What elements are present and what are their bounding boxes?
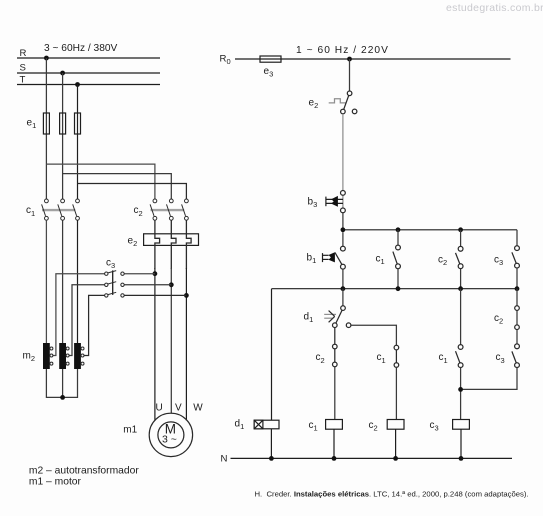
svg-text:c2: c2 (134, 205, 143, 218)
pushbutton b1 actuator (323, 252, 335, 262)
svg-text:c3: c3 (106, 258, 115, 271)
wire d1 to c1-NC branch (351, 325, 397, 345)
m2 winding1 taps (50, 347, 53, 365)
junction N c3 (459, 456, 464, 461)
timer contact d1 (333, 289, 351, 328)
svg-text:b1: b1 (307, 253, 317, 266)
wire R0 to e2 switch (349, 59, 351, 91)
svg-text:b3: b3 (308, 196, 318, 209)
svg-text:m2 – autotransformador: m2 – autotransformador (29, 465, 139, 476)
autotransformer m2 winding 3 (74, 343, 81, 369)
svg-text:V: V (175, 403, 182, 414)
overload relay e2 heater 1 (155, 220, 160, 269)
svg-text:c2: c2 (369, 420, 378, 433)
wire b3 to bus1 (342, 213, 344, 230)
svg-text:c1: c1 (376, 253, 385, 266)
wire m2 tap3 to c3 (84, 295, 105, 355)
control bus 1 (343, 229, 517, 231)
contactor c3 linkage (112, 270, 114, 295)
svg-text:c3: c3 (430, 420, 439, 433)
wire e2 to motor V (170, 268, 172, 414)
overload relay e2 heater 3 (186, 220, 191, 269)
svg-text:N: N (221, 454, 228, 465)
pushbutton b3 actuator (326, 196, 343, 207)
svg-text:c2: c2 (438, 255, 447, 268)
switch e2 open terminal (352, 109, 357, 114)
switch e2 blade (344, 96, 349, 110)
junction c3 out 1 (153, 271, 158, 276)
coil c3 (453, 420, 470, 430)
fuse e3 inner line (260, 58, 281, 60)
wire b1 to bus2 (342, 269, 344, 289)
switch e2 bottom terminal (341, 109, 346, 114)
svg-text:3 ~ 60Hz / 380V: 3 ~ 60Hz / 380V (44, 43, 118, 54)
autotransformer m2 winding 2 (59, 343, 66, 369)
fuse e1 phase S (60, 113, 66, 134)
overload relay e2 heater 2 (171, 220, 176, 269)
junction c3 coil feed (458, 387, 463, 392)
contact c3 seal-in (512, 230, 519, 289)
wire L2 upper (62, 73, 64, 199)
svg-text:e1: e1 (27, 118, 37, 131)
wire c3 coil to N (460, 429, 462, 458)
svg-text:c2: c2 (494, 313, 503, 326)
contactor c3 pole 1 (105, 271, 125, 276)
coil c2 (387, 420, 404, 430)
svg-text:U: U (156, 402, 163, 413)
svg-text:c1: c1 (439, 352, 448, 365)
motor m1 outer (149, 413, 192, 456)
bus S (17, 72, 160, 74)
wire L2 lower to m2 (62, 220, 64, 343)
junction N d1 (269, 456, 274, 461)
timer d1 delay arrow (324, 311, 336, 323)
wire L1 upper (45, 58, 47, 199)
svg-text:S: S (20, 62, 26, 73)
wire d1 coil to N (270, 429, 272, 459)
junction bus1 b1 (341, 227, 346, 232)
svg-text:c1: c1 (377, 352, 386, 365)
wire branch 2 to c2 (63, 174, 172, 200)
svg-text:m1 – motor: m1 – motor (29, 476, 82, 487)
bus R0 (235, 58, 511, 60)
wire e2 to b3 (342, 114, 344, 191)
svg-text:c3: c3 (494, 255, 503, 268)
m2 winding2 taps (66, 347, 69, 365)
junction bus2 main (341, 286, 346, 291)
junction T / L3 (75, 82, 80, 87)
junction m2 star point (60, 395, 65, 400)
wire branch 3 to c2 (78, 184, 187, 200)
control bus 2 (272, 288, 518, 290)
junction bus1 c1 (396, 227, 401, 232)
contactor c1 pole T (73, 199, 80, 220)
contact c1 seal-in (393, 230, 401, 289)
bus N (231, 457, 513, 459)
junction N c2 (393, 456, 398, 461)
contact c1 NC interlock (394, 345, 399, 419)
contactor c2 pole 1 (150, 199, 157, 220)
wire L1 lower to m2 (45, 220, 47, 343)
contactor c1 linkage (42, 209, 75, 211)
contact c2 NC interlock (333, 328, 338, 420)
contact c2 seal-in (456, 230, 464, 289)
contactor c2 pole 2 (167, 199, 174, 220)
contactor c2 linkage (151, 209, 185, 211)
contactor c2 pole 3 (182, 199, 189, 220)
junction c3 out 2 (169, 282, 174, 287)
wire branch 1 to c2 (46, 164, 154, 199)
svg-text:d1: d1 (304, 312, 314, 325)
overload relay e2 box (144, 234, 199, 246)
svg-text:e2: e2 (309, 98, 319, 111)
switch e2 actuator (329, 99, 346, 103)
wire c1 coil to N (333, 429, 335, 458)
pushbutton b1 (335, 232, 345, 269)
contactor c1 pole S (58, 199, 65, 220)
wire e2 to motor W (185, 268, 187, 421)
coil c1 (326, 420, 343, 430)
svg-text:T: T (20, 74, 26, 85)
contactor c3 pole 2 (105, 282, 125, 287)
wire L3 upper (77, 85, 79, 200)
bus R (17, 57, 160, 59)
wire c2 coil to N (395, 429, 397, 458)
fuse e3 (260, 56, 281, 62)
fuse e1 phase T (75, 113, 81, 134)
contactor c1 pole R (42, 199, 49, 220)
junction N c1 (332, 456, 337, 461)
autotransformer m2 winding 1 (43, 343, 50, 369)
junction bus2 c1 (396, 286, 401, 291)
svg-text:e3: e3 (264, 66, 274, 79)
junction bus2 right (515, 286, 520, 291)
junction S / L2 (60, 71, 65, 76)
junction R0 / control column (347, 57, 352, 62)
wire c3 out 1 (124, 273, 155, 275)
pushbutton b3 contact (341, 191, 346, 213)
contact c1 NO for c3 (456, 289, 464, 420)
wire c3 out 2 (124, 284, 171, 286)
junction bus1 c2 (458, 227, 463, 232)
svg-text:m1: m1 (123, 424, 137, 435)
svg-text:3 ~: 3 ~ (162, 433, 177, 445)
wire m2 star (46, 369, 77, 397)
switch e2 top terminal (347, 91, 352, 96)
svg-text:c1: c1 (26, 205, 35, 218)
svg-text:c2: c2 (316, 352, 325, 365)
contact c3 NO right (461, 330, 520, 390)
wire L3 lower to m2 (77, 220, 79, 343)
timer coil d1 (254, 420, 279, 429)
svg-text:R0: R0 (220, 53, 231, 66)
wire c3 out 3 (124, 294, 186, 296)
junction c3 out 3 (184, 293, 189, 298)
wire bus2 to d1 coil (271, 289, 273, 421)
junction bus2 c2 (458, 286, 463, 291)
svg-text:d1: d1 (235, 418, 245, 431)
contact c2 NC right (515, 289, 520, 330)
svg-text:estudegratis.com.br: estudegratis.com.br (446, 2, 543, 14)
m2 winding3 taps (81, 347, 84, 365)
wire m2 tap1 to c3 (53, 274, 105, 356)
fuse e1 phase R (43, 113, 49, 134)
svg-text:H. Creder. Instalações elétri: H. Creder. Instalações elétricas. LTC, 1… (255, 489, 529, 498)
junction R / L1 (44, 56, 49, 61)
wire m2 tap2 to c3 (69, 285, 104, 356)
motor m1 inner (158, 422, 184, 448)
svg-text:c3: c3 (496, 352, 505, 365)
contactor c3 pole 3 (105, 292, 125, 297)
svg-text:m2: m2 (23, 351, 36, 364)
bus T (17, 84, 160, 86)
svg-text:W: W (193, 402, 203, 413)
svg-text:1 ~ 60 Hz / 220V: 1 ~ 60 Hz / 220V (296, 45, 389, 56)
svg-text:e2: e2 (128, 236, 138, 249)
wire e2 to motor U (154, 268, 156, 421)
svg-text:c1: c1 (309, 420, 318, 433)
